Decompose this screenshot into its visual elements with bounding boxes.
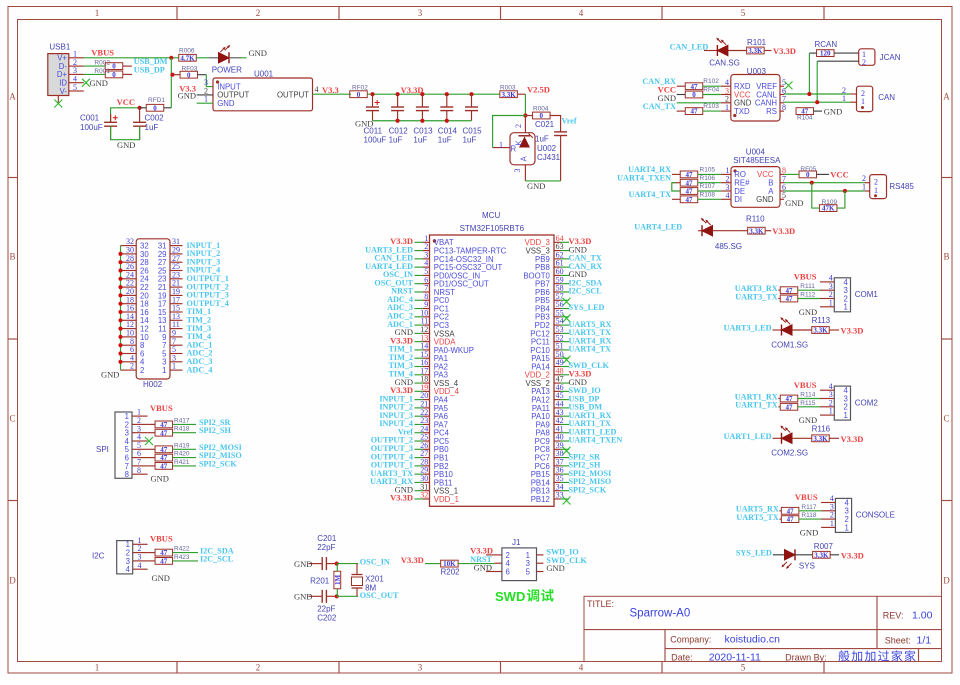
MCU pin 57 PB5 — [535, 292, 570, 306]
svg-text:R420: R420 — [174, 451, 190, 458]
U002 pin1 lead — [493, 140, 510, 149]
junction CANL — [807, 92, 811, 96]
svg-text:CONSOLE: CONSOLE — [856, 511, 895, 520]
MCU pin 24 PC4 — [398, 424, 450, 437]
connector RS485 — [862, 174, 914, 198]
svg-text:SWD: SWD — [495, 589, 525, 604]
svg-text:22pF: 22pF — [317, 543, 335, 552]
shunt regulator U002 CJ431 — [510, 133, 561, 165]
capacitor C011 — [364, 94, 387, 144]
resistor RF04 — [677, 86, 721, 99]
svg-text:5: 5 — [73, 83, 77, 92]
svg-text:R105: R105 — [700, 167, 716, 174]
svg-text:R103: R103 — [703, 103, 719, 110]
net label UART3_LED — [724, 324, 772, 333]
wire SYS LED to R007 — [795, 554, 812, 556]
svg-text:1uF: 1uF — [463, 136, 477, 145]
svg-text:I2C_SCL: I2C_SCL — [200, 555, 234, 564]
net flag VCC — [117, 97, 135, 107]
MCU pin 16 PA2 — [388, 358, 448, 371]
MCU pin 26 PB0 — [371, 441, 450, 454]
net flag V3.3 (rail) — [322, 85, 339, 95]
label GND (U003 pin2) — [658, 93, 676, 103]
svg-text:CAN_TX: CAN_TX — [643, 102, 676, 111]
label GND (CONSOLE) — [800, 527, 818, 537]
svg-text:3: 3 — [418, 8, 423, 18]
svg-text:3.3K: 3.3K — [813, 435, 828, 443]
svg-text:UART3_TX: UART3_TX — [735, 292, 778, 301]
svg-text:5: 5 — [741, 8, 746, 18]
svg-text:GND: GND — [90, 78, 108, 88]
connector COM1 — [820, 274, 878, 312]
svg-text:COM1: COM1 — [855, 290, 879, 299]
label GND (USB1 ID) — [90, 78, 108, 88]
svg-text:R423: R423 — [174, 554, 190, 561]
resistor R107 — [680, 183, 721, 196]
wire R116 to V3.3D — [829, 437, 839, 439]
resistor R003 — [500, 84, 517, 99]
label GND (cap bank) — [355, 118, 373, 128]
caption SWD debug (Chinese) — [495, 589, 554, 604]
resistor RF03 — [173, 66, 207, 80]
svg-text:C001: C001 — [80, 114, 100, 123]
svg-text:2: 2 — [256, 8, 261, 18]
svg-text:2: 2 — [130, 362, 134, 371]
svg-text:H002: H002 — [143, 380, 163, 389]
svg-text:1: 1 — [499, 140, 503, 149]
label GND (I2C) — [152, 573, 170, 583]
wire R109 legs — [812, 183, 845, 208]
title REV — [883, 610, 933, 622]
svg-text:R419: R419 — [174, 442, 190, 449]
svg-text:V2.5D: V2.5D — [527, 85, 550, 95]
wire UART3_LED — [773, 329, 782, 331]
MCU pin 59 PB7 — [535, 275, 602, 288]
MCU pin 23 PA7 — [379, 416, 448, 429]
wire LED to R101 — [728, 50, 747, 52]
svg-text:47: 47 — [686, 171, 694, 179]
svg-text:R417: R417 — [174, 417, 190, 424]
connector SPI — [96, 408, 148, 479]
svg-text:2: 2 — [862, 58, 866, 67]
svg-text:VCC: VCC — [830, 170, 848, 180]
svg-text:GND: GND — [546, 563, 564, 573]
svg-text:0: 0 — [806, 171, 810, 179]
MCU U-STM32F105RBT6 body — [430, 211, 555, 506]
net flag V3.3 (U001 output pin2) — [179, 83, 196, 93]
net label UART5_TX — [736, 513, 779, 522]
svg-text:V3.3D: V3.3D — [772, 226, 795, 236]
wire A line — [784, 190, 865, 192]
MCU pin 46 PA13 — [531, 383, 601, 396]
svg-text:47: 47 — [686, 188, 694, 196]
label GND (SPI) — [151, 474, 169, 484]
svg-text:GND: GND — [824, 106, 842, 116]
svg-text:1/1: 1/1 — [917, 635, 932, 647]
svg-text:U001: U001 — [254, 70, 274, 79]
title Drawn By — [785, 650, 915, 662]
MCU pin 38 PC7 — [535, 449, 600, 462]
wire VBUS branch down — [170, 58, 172, 108]
wire RF03 to U001 INPUT — [206, 75, 213, 87]
MCU pin 29 PB10 — [371, 466, 454, 479]
junctions H002 GND bus — [118, 252, 122, 364]
svg-text:MCU: MCU — [482, 211, 500, 220]
svg-text:Company:: Company: — [670, 635, 711, 645]
svg-text:GND: GND — [249, 48, 267, 58]
resistor R109 — [819, 199, 837, 213]
MCU pin 18 VSS_4 — [395, 375, 459, 388]
MCU pin 8 PC0 — [387, 292, 450, 305]
net label SPI2_SCK — [199, 459, 237, 468]
wire R101 to V3.3D — [764, 50, 771, 52]
junction V3.3D at C011 — [370, 92, 374, 96]
svg-text:C201: C201 — [317, 534, 337, 543]
svg-text:GND: GND — [800, 527, 818, 537]
svg-text:C: C — [943, 414, 949, 424]
wire JCAN pin2 to CANH — [817, 60, 859, 62]
net flag VBUS — [91, 48, 114, 58]
svg-text:47: 47 — [786, 395, 794, 403]
svg-text:OSC_IN: OSC_IN — [360, 558, 390, 567]
svg-text:CJ431: CJ431 — [537, 153, 561, 162]
MCU pin 51 PC10 — [530, 342, 611, 355]
label GND (COM1) — [799, 307, 817, 317]
svg-text:GND: GND — [217, 99, 235, 108]
svg-text:47: 47 — [160, 549, 168, 557]
wire C001/C002 GND rail — [111, 126, 140, 140]
wire U001 pin4 out — [313, 93, 352, 95]
resistor R417 — [148, 417, 196, 429]
MCU pin 34 PB13 — [531, 482, 607, 495]
svg-text:R201: R201 — [310, 577, 330, 586]
svg-text:C012: C012 — [389, 127, 409, 136]
svg-text:GND: GND — [294, 559, 312, 569]
LED CAN.SG — [709, 38, 740, 68]
title block TITLE — [587, 599, 614, 609]
MCU pin 9 PC1 — [387, 300, 449, 313]
svg-text:4: 4 — [138, 561, 142, 570]
svg-text:GND: GND — [527, 181, 545, 191]
label GND (J1 pin5) — [546, 563, 564, 573]
MCU pin 12 VSSA — [395, 325, 456, 338]
resistor RF05 — [784, 166, 829, 179]
svg-text:1: 1 — [172, 362, 176, 371]
MCU pin 31 VSS_1 — [395, 482, 459, 495]
net label UART3_TX — [735, 292, 778, 301]
svg-text:5: 5 — [526, 567, 531, 576]
IC U004 — [721, 148, 786, 208]
no-connect X on U003 VREF — [785, 81, 793, 89]
MCU pin 55 PB3 — [535, 308, 570, 322]
MCU pin 40 PC9 — [535, 433, 623, 446]
svg-text:3: 3 — [418, 663, 423, 673]
capacitor C012 — [389, 94, 409, 144]
resistor RF02 — [350, 84, 369, 99]
svg-text:47: 47 — [787, 516, 795, 524]
part label RCAN — [815, 40, 838, 49]
net label CAN_TX — [643, 102, 676, 111]
no-connect X (SPI pin4) — [145, 437, 153, 445]
svg-text:1: 1 — [162, 366, 166, 375]
svg-text:GND: GND — [151, 474, 169, 484]
svg-text:C202: C202 — [317, 614, 337, 623]
svg-text:47: 47 — [786, 295, 794, 303]
svg-text:1: 1 — [829, 407, 833, 416]
resistor RFD1 — [140, 97, 172, 112]
svg-text:3.3K: 3.3K — [749, 227, 764, 235]
label GND (J1 pin6) — [474, 562, 495, 572]
svg-text:R115: R115 — [800, 400, 815, 407]
net flag VBUS (COM2) — [794, 380, 817, 390]
svg-text:47: 47 — [691, 83, 699, 91]
svg-text:VBUS: VBUS — [794, 380, 817, 390]
svg-text:GND: GND — [474, 562, 492, 572]
wire U002 R feedback — [493, 116, 526, 148]
header H002 — [121, 237, 229, 389]
connector J1 — [495, 538, 544, 581]
MCU pin 15 PA1 — [388, 350, 448, 363]
wire cap bank GND rail — [373, 119, 472, 123]
svg-text:J1: J1 — [512, 538, 521, 547]
MCU pin 30 PB11 — [370, 474, 452, 487]
svg-text:C015: C015 — [463, 127, 483, 136]
svg-text:GND: GND — [294, 592, 312, 602]
svg-text:4.7K: 4.7K — [180, 54, 195, 62]
svg-text:1: 1 — [95, 663, 100, 673]
resistor R118 — [779, 512, 821, 524]
wire U003 pin2 — [677, 102, 721, 104]
resistor R002 — [84, 60, 132, 71]
svg-text:R112: R112 — [800, 292, 815, 299]
resistor R202 — [441, 560, 461, 576]
capacitor C014 — [438, 94, 458, 144]
svg-text:47K: 47K — [822, 205, 835, 213]
wire UART1_LED — [773, 437, 782, 439]
MCU pin 3 PC14-OSC32_IN — [374, 250, 493, 263]
net label UART1_RX — [735, 392, 778, 401]
net flag V2.5D — [527, 85, 550, 95]
MCU pin 42 PA9 — [536, 416, 611, 429]
MCU pin 27 PB1 — [371, 449, 449, 462]
junction CANH — [815, 100, 819, 104]
svg-text:0: 0 — [153, 104, 157, 112]
label GND (C001) — [117, 140, 135, 150]
wire V3.3D to R202 — [425, 563, 441, 565]
svg-text:UART4_TXEN: UART4_TXEN — [617, 173, 671, 182]
connector I2C — [92, 536, 148, 574]
svg-text:100uF: 100uF — [80, 123, 103, 132]
resistor R116 — [812, 425, 831, 443]
svg-text:CAN: CAN — [878, 93, 895, 102]
net label UART1_TX — [735, 401, 778, 410]
svg-text:STM32F105RBT6: STM32F105RBT6 — [460, 224, 525, 233]
MCU pin 11 PC3 — [387, 317, 449, 330]
junction A — [843, 189, 847, 193]
svg-text:V3.3D: V3.3D — [470, 546, 493, 556]
svg-text:3: 3 — [513, 169, 522, 173]
svg-text:SPI2_SH: SPI2_SH — [199, 426, 231, 435]
capacitor C002 — [133, 108, 164, 140]
net flag V3.3D (COM2.SG) — [841, 434, 864, 444]
svg-text:R101: R101 — [747, 38, 767, 47]
MCU pin 2 PC13-TAMPER-RTC — [365, 242, 507, 255]
MCU pin 14 PA0-WKUP — [388, 342, 474, 355]
junction OSC_IN — [335, 562, 339, 566]
MCU pin 17 PA3 — [388, 366, 448, 379]
wire 485 LED to R110 — [713, 230, 748, 232]
junction V3.3D at C014 — [445, 92, 449, 96]
net flag VBUS (SPI) — [150, 403, 173, 413]
resistor R418 — [148, 426, 196, 438]
resistor R117 — [779, 504, 821, 516]
net flag VBUS (I2C) — [150, 534, 173, 544]
crystal X201 — [352, 564, 385, 597]
capacitor C001 — [80, 114, 118, 140]
resistor R422 — [148, 546, 198, 558]
svg-text:V3.3: V3.3 — [322, 85, 339, 95]
resistor R006 — [179, 48, 197, 63]
net label UART1_LED — [724, 432, 772, 441]
svg-text:R421: R421 — [174, 459, 190, 466]
svg-text:COM2.SG: COM2.SG — [771, 449, 808, 458]
resistor R004 — [525, 106, 550, 120]
resistor R423 — [148, 554, 198, 566]
svg-text:VBUS: VBUS — [150, 403, 173, 413]
MCU pin 32 VDD_1 — [390, 491, 459, 504]
junction V3.3D at C013 — [420, 92, 424, 96]
MCU pin 33 PB12 — [531, 491, 571, 505]
junction V3.3D at C012 — [396, 92, 400, 96]
svg-text:22pF: 22pF — [317, 605, 335, 614]
svg-text:R007: R007 — [814, 542, 834, 551]
svg-text:1: 1 — [843, 411, 847, 420]
svg-text:Drawn By:: Drawn By: — [785, 653, 827, 663]
resistor R007 — [813, 542, 834, 559]
net flag VBUS (CONSOLE) — [795, 492, 818, 502]
svg-text:REV:: REV: — [883, 611, 904, 621]
title Sheet — [885, 635, 931, 647]
svg-text:R116: R116 — [812, 425, 831, 434]
resistor R102 — [677, 78, 721, 91]
net label SPI2_SR — [199, 418, 230, 427]
svg-text:R114: R114 — [800, 392, 815, 399]
connector CONSOLE — [821, 494, 895, 532]
svg-text:R117: R117 — [801, 504, 816, 511]
svg-text:GND: GND — [117, 140, 135, 150]
wire R003 to V2.5D node — [518, 94, 526, 115]
svg-text:V3.3D: V3.3D — [841, 550, 864, 560]
net label USB_DM — [134, 57, 168, 66]
MCU pin 5 PD0/OSC_IN — [383, 267, 480, 280]
svg-text:V3.3D: V3.3D — [401, 85, 424, 95]
resistor RCAN 120 — [817, 50, 835, 58]
connector CAN — [842, 86, 895, 112]
title Sparrow-A0 — [630, 608, 691, 620]
svg-text:UART1_LED: UART1_LED — [724, 432, 772, 441]
svg-text:SIT485EESA: SIT485EESA — [733, 156, 781, 165]
net label CAN_RX — [642, 77, 676, 86]
wire JCAN pin2 drop — [816, 61, 818, 102]
resistor R419 — [148, 442, 196, 454]
net flag VBUS (COM1) — [794, 272, 817, 282]
MCU pin 36 PB15 — [531, 466, 612, 479]
junction V3.3D at C015 — [469, 92, 473, 96]
svg-text:K: K — [515, 140, 524, 146]
svg-text:0: 0 — [112, 63, 116, 71]
label GND (R104) — [824, 106, 842, 116]
U002 pin3 lead — [513, 165, 525, 181]
svg-text:SYS_LED: SYS_LED — [569, 303, 605, 312]
svg-text:1: 1 — [842, 94, 846, 103]
net label SPI2_MISO — [199, 451, 242, 460]
wire RCAN to JCAN pin1 — [834, 52, 859, 54]
MCU pin 6 PD1/OSC_OUT — [374, 275, 489, 288]
wire U001 pin2 — [197, 94, 213, 96]
svg-text:1M: 1M — [334, 575, 342, 586]
connector COM2 — [820, 382, 878, 420]
svg-text:Sheet:: Sheet: — [885, 636, 911, 646]
wire VCC rail — [111, 108, 140, 123]
net flag V3.3D (485 LED) — [772, 226, 795, 236]
svg-text:UART5_TX: UART5_TX — [736, 513, 779, 522]
svg-text:V-: V- — [60, 87, 68, 96]
title Company — [670, 634, 780, 646]
junction VBUS — [169, 56, 173, 60]
svg-text:120: 120 — [820, 50, 831, 58]
svg-text:B: B — [943, 252, 949, 262]
resistor R112 — [778, 292, 820, 304]
svg-text:SYS_LED: SYS_LED — [736, 548, 772, 557]
wire SYS_LED to LED — [773, 554, 784, 556]
svg-text:TXD: TXD — [734, 107, 750, 116]
label GND (C202) — [294, 592, 312, 602]
no-connect X on USB1 shield — [54, 100, 62, 108]
svg-text:R118: R118 — [801, 512, 816, 519]
wire R004 to C021 — [550, 116, 561, 132]
svg-text:0: 0 — [692, 91, 696, 99]
svg-text:4: 4 — [579, 8, 584, 18]
svg-text:R102: R102 — [703, 78, 719, 85]
svg-text:C002: C002 — [145, 114, 165, 123]
svg-text:8M: 8M — [365, 584, 376, 593]
svg-text:SYS: SYS — [799, 562, 815, 571]
svg-text:UART4_LED: UART4_LED — [634, 223, 682, 232]
wire H002 GND bus — [120, 246, 122, 371]
no-connect X on USB1 ID pin — [82, 79, 90, 87]
svg-text:R111: R111 — [800, 283, 815, 290]
resistor R105 — [672, 167, 721, 180]
MCU pin 48 VDD_2 — [525, 366, 592, 379]
svg-text:1: 1 — [845, 523, 849, 532]
MCU pin 44 PA11 — [532, 400, 603, 413]
label GND (H002) — [101, 370, 119, 380]
net flag V3.3D (rail) — [401, 85, 424, 95]
resistor R113 — [812, 316, 831, 334]
capacitor C021 — [535, 120, 567, 181]
svg-text:RFD1: RFD1 — [148, 97, 165, 104]
MCU pin 58 PB6 — [535, 284, 602, 297]
resistor R104 — [796, 108, 822, 122]
wire VBUS from USB1 to R006 — [84, 57, 179, 59]
capacitor C015 — [463, 94, 483, 144]
junction VCC — [138, 106, 142, 110]
IC U003 — [721, 67, 786, 121]
svg-text:VDD_1: VDD_1 — [434, 495, 459, 504]
svg-text:R104: R104 — [797, 115, 813, 122]
svg-text:2: 2 — [140, 366, 144, 375]
svg-text:R418: R418 — [174, 426, 190, 433]
